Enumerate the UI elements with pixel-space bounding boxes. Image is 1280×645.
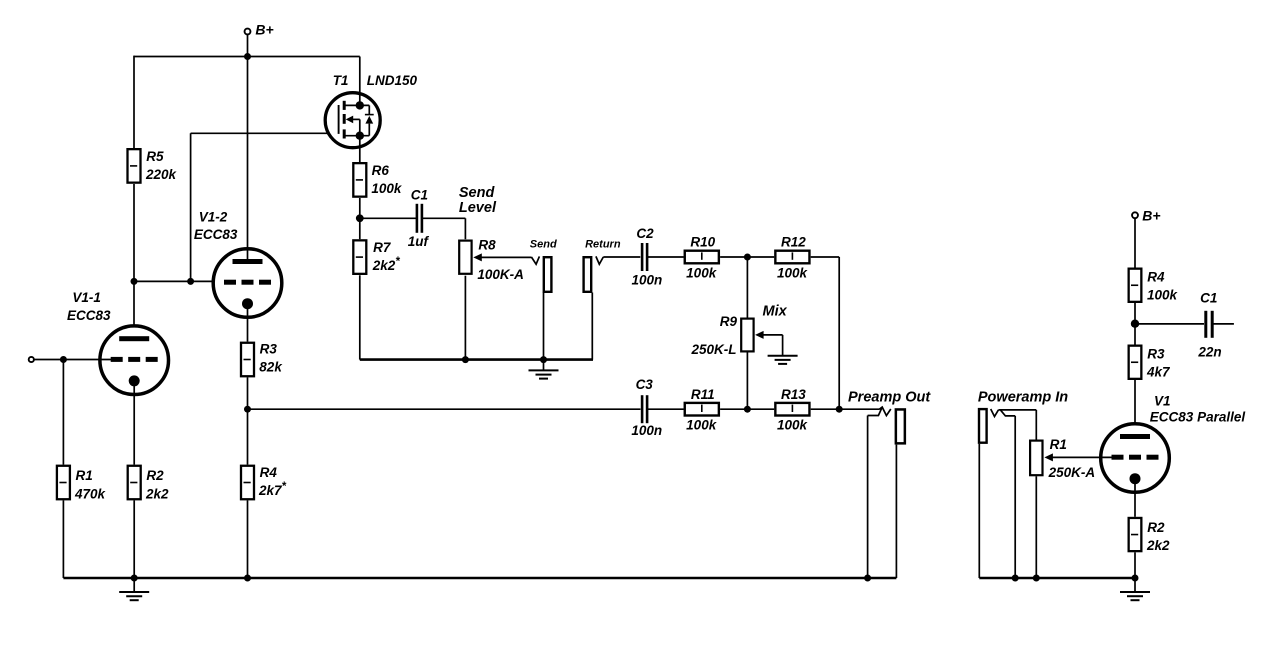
- resistor R12: [775, 251, 809, 264]
- jack PowerampIn tip contact: [991, 409, 999, 417]
- wire gate L-run up: [190, 133, 192, 282]
- wire return to C2: [603, 256, 640, 258]
- svg-text:2k2: 2k2: [1146, 538, 1170, 553]
- wire R10 to node: [720, 256, 747, 258]
- svg-text:R5: R5: [146, 149, 164, 164]
- svg-text:R11: R11: [691, 387, 715, 402]
- resistor R13: [775, 403, 809, 416]
- wire node to C1 right: [1135, 323, 1204, 325]
- tube V1-2 ECC83: [213, 249, 282, 318]
- wire node to R12: [747, 256, 774, 258]
- terminal B+ (right): [1132, 212, 1138, 218]
- wire R2 to ground: [1134, 552, 1136, 578]
- capacitor C1 right (22n): [1206, 311, 1212, 338]
- svg-text:100K-A: 100K-A: [477, 267, 524, 282]
- wire out node to jack: [839, 408, 879, 410]
- wire node to R13: [747, 408, 774, 410]
- wire R4 to R3: [1134, 303, 1136, 345]
- wire C1 to R8: [422, 217, 466, 219]
- resistor R2: [128, 466, 141, 500]
- wire pj sleeve to bus: [978, 444, 980, 578]
- svg-text:R9: R9: [720, 314, 738, 329]
- svg-text:Send: Send: [530, 239, 557, 251]
- terminal B+ (left supply): [245, 29, 251, 35]
- ground fx: [543, 360, 545, 371]
- R8 wiper arrow: [473, 253, 482, 261]
- svg-text:250K-L: 250K-L: [690, 342, 736, 357]
- node upper mix: [744, 254, 751, 261]
- wire V1-1 plate lead: [133, 281, 135, 338]
- wire node to grid node: [134, 280, 191, 282]
- svg-text:100k: 100k: [777, 418, 809, 433]
- node right bus R2: [1132, 575, 1139, 582]
- svg-text:B+: B+: [1142, 207, 1160, 223]
- wire R2 to bus: [133, 500, 135, 578]
- resistor R10: [685, 251, 719, 264]
- T1 drain pin dot: [356, 101, 364, 109]
- svg-text:Preamp Out: Preamp Out: [848, 390, 931, 406]
- wire R6 to R7: [359, 198, 361, 239]
- terminal input: [29, 357, 34, 362]
- wire input to grid node: [34, 359, 63, 361]
- svg-text:22n: 22n: [1197, 345, 1221, 360]
- svg-text:R1: R1: [1050, 437, 1067, 452]
- node R6/R7 C1 tap: [356, 214, 364, 222]
- wire fx ground bus: [360, 358, 593, 361]
- wire send sleeve to bus: [543, 293, 545, 360]
- wire R1 to bus: [62, 500, 64, 578]
- T1 channel segments: [343, 101, 346, 110]
- svg-text:100k: 100k: [1147, 288, 1179, 303]
- jack Return tip contact: [596, 256, 603, 264]
- resistor R2 right: [1129, 518, 1142, 551]
- node bus V1-1 column: [131, 575, 138, 582]
- svg-text:R6: R6: [372, 163, 390, 178]
- T1 gate bar: [338, 105, 340, 134]
- svg-text:100k: 100k: [371, 181, 403, 196]
- wire C1 right open end: [1213, 323, 1234, 325]
- R9 wiper arrow: [755, 331, 764, 339]
- pot R1 volume: [1030, 441, 1042, 476]
- node preamp out: [836, 406, 843, 413]
- svg-text:Return: Return: [585, 239, 621, 251]
- svg-text:V1-1: V1-1: [72, 290, 101, 305]
- svg-text:Send: Send: [459, 185, 496, 201]
- node R5/V1-1 plate: [131, 278, 138, 285]
- svg-text:100n: 100n: [632, 272, 663, 287]
- ground right: [1134, 578, 1136, 592]
- wire V1-2 cathode to R3: [247, 304, 249, 342]
- wire R3 to V1 plate: [1134, 380, 1136, 435]
- svg-text:Level: Level: [459, 200, 497, 216]
- T1 source pin dot: [356, 132, 364, 140]
- resistor R4: [241, 466, 254, 500]
- node fx bus send jack: [540, 356, 547, 363]
- svg-text:ECC83: ECC83: [194, 227, 238, 242]
- ground mix: [768, 356, 798, 364]
- svg-text:R13: R13: [781, 387, 806, 402]
- wire top rail: [134, 56, 360, 58]
- resistor R3: [241, 343, 254, 377]
- svg-text:R2: R2: [146, 468, 164, 483]
- svg-text:C1: C1: [1200, 291, 1217, 306]
- svg-text:B+: B+: [255, 22, 273, 38]
- wire V1 cathode to R2: [1134, 479, 1136, 517]
- wire R5 to node: [133, 184, 135, 281]
- wire C3 to R11: [647, 408, 684, 410]
- transistor T1 LND150 body: [325, 93, 380, 148]
- svg-text:ECC83: ECC83: [67, 308, 111, 323]
- svg-text:R3: R3: [260, 341, 278, 356]
- svg-text:LND150: LND150: [367, 73, 418, 88]
- wire right ground bus: [979, 577, 1135, 580]
- svg-text:R4: R4: [1147, 270, 1165, 285]
- svg-text:R1: R1: [76, 468, 93, 483]
- jack PreampOut tip contact: [879, 407, 890, 416]
- wire return sleeve to bus: [591, 293, 593, 360]
- svg-text:R3: R3: [1147, 347, 1165, 362]
- wire sleeve to bus: [895, 445, 897, 578]
- capacitor C2 (100n): [642, 243, 647, 271]
- T1 protection diode: [368, 105, 370, 114]
- svg-text:R8: R8: [478, 238, 496, 253]
- wire R11 to node: [720, 408, 747, 410]
- wire node to R9: [746, 257, 748, 318]
- wire R4 to bus: [247, 500, 249, 578]
- svg-text:T1: T1: [333, 73, 349, 88]
- wire rail to T1 drain: [359, 57, 361, 106]
- svg-text:R2: R2: [1147, 520, 1165, 535]
- T1 bulk arrow: [350, 118, 360, 120]
- resistor R5: [128, 149, 141, 183]
- wire tip to R1: [1035, 410, 1037, 440]
- T1 source link: [343, 135, 369, 137]
- node C1 tap right: [1131, 320, 1139, 328]
- wire R3 to node: [247, 377, 249, 409]
- jack PreampOut switch contact: [868, 407, 883, 415]
- svg-text:C1: C1: [411, 188, 428, 203]
- svg-text:1uf: 1uf: [408, 234, 430, 249]
- svg-text:Mix: Mix: [763, 303, 788, 319]
- svg-text:100k: 100k: [686, 265, 718, 280]
- node gate/grid junction: [187, 278, 194, 285]
- resistor R11: [685, 403, 719, 416]
- node lower mix: [744, 406, 751, 413]
- node right bus switch: [1012, 575, 1019, 582]
- svg-text:R4: R4: [260, 465, 278, 480]
- wire node to C1: [360, 217, 417, 219]
- wire R1 to bus: [1035, 476, 1037, 578]
- svg-text:R10: R10: [690, 235, 715, 250]
- capacitor C3 (100n): [642, 395, 647, 423]
- node bus preamp jack: [864, 575, 871, 582]
- resistor R6: [353, 163, 366, 197]
- wire rail left down to R5: [133, 56, 135, 148]
- node R3/R4 mix tap: [244, 406, 251, 413]
- svg-text:82k: 82k: [259, 359, 283, 374]
- svg-text:100k: 100k: [777, 265, 809, 280]
- node bus V1-2 column: [244, 575, 251, 582]
- svg-text:100k: 100k: [686, 418, 718, 433]
- wire T1 source to R6: [359, 136, 361, 162]
- jack PreampOut sleeve: [896, 409, 905, 443]
- resistor R7: [353, 240, 366, 274]
- wire V1-1 cathode to R2: [133, 381, 135, 465]
- jack PowerampIn sleeve: [979, 409, 987, 443]
- ground main: [133, 578, 135, 592]
- svg-text:V1: V1: [1154, 394, 1171, 409]
- resistor R3 right: [1129, 346, 1142, 379]
- wire mix tap to C3: [248, 408, 641, 410]
- svg-text:250K-A: 250K-A: [1048, 465, 1096, 480]
- wire input node down to R1: [62, 360, 64, 465]
- svg-text:R7: R7: [373, 240, 392, 255]
- resistor R4 right: [1129, 269, 1142, 302]
- wire B+ down to rail: [247, 35, 249, 57]
- svg-text:C2: C2: [636, 226, 654, 241]
- svg-text:Poweramp In: Poweramp In: [978, 390, 1068, 406]
- svg-text:C3: C3: [636, 377, 654, 392]
- node junction B+ rail: [244, 53, 251, 60]
- svg-text:220k: 220k: [145, 167, 178, 182]
- wire ground bus: [63, 577, 896, 580]
- node fx bus R8: [462, 356, 469, 363]
- wire R7 to fx bus: [359, 275, 361, 359]
- wire B+ to R4: [1134, 219, 1136, 268]
- wire R13 to out node: [811, 408, 840, 410]
- wire R8 to fx bus: [464, 276, 466, 360]
- pot R9 mix: [741, 319, 753, 352]
- R1 wiper arrow: [1044, 453, 1053, 461]
- capacitor C1 (1uf): [417, 204, 422, 233]
- node right bus R1: [1033, 575, 1040, 582]
- svg-text:ECC83 Parallel: ECC83 Parallel: [1150, 409, 1246, 424]
- wire node down to R4: [247, 409, 249, 464]
- svg-text:4k7: 4k7: [1146, 365, 1171, 380]
- pot R8 send level: [459, 241, 471, 274]
- wire R9 to lower node: [746, 353, 748, 410]
- T1 drain link: [343, 104, 369, 106]
- wire V1-2 plate lead: [247, 57, 249, 262]
- node input grid: [60, 356, 67, 363]
- svg-text:100n: 100n: [631, 423, 662, 438]
- svg-text:V1-2: V1-2: [199, 210, 228, 225]
- tube V1-1 ECC83: [100, 326, 169, 395]
- wire node to V1-2 grid: [191, 280, 225, 282]
- svg-text:470k: 470k: [74, 487, 107, 502]
- resistor R1: [57, 466, 70, 500]
- wire V1-1 grid lead: [63, 359, 112, 361]
- wire R12 right and down: [811, 256, 840, 258]
- jack PowerampIn switch contact: [1001, 410, 1016, 416]
- tube V1 ECC83 parallel: [1101, 424, 1170, 493]
- jack Send tip contact: [531, 256, 539, 264]
- jack Return sleeve: [584, 257, 592, 292]
- wire C2 to R10: [647, 256, 684, 258]
- jack Send sleeve: [544, 257, 552, 292]
- svg-text:R12: R12: [781, 235, 806, 250]
- svg-text:2k2: 2k2: [145, 487, 169, 502]
